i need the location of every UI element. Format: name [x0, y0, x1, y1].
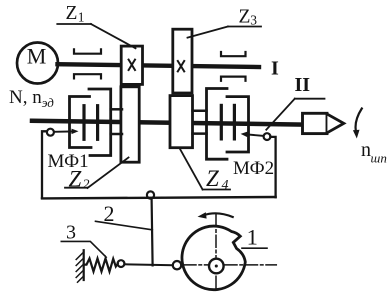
svg-text:Z: Z [206, 166, 219, 191]
svg-text:1: 1 [78, 10, 85, 25]
svg-text:1: 1 [247, 224, 258, 249]
bearing on shaft I (left) [74, 49, 101, 78]
cam pivot [209, 259, 224, 274]
spindle rect [303, 113, 328, 133]
spring eye [118, 260, 125, 267]
svg-text:Z: Z [66, 3, 78, 24]
cam rotation arrow [203, 213, 233, 217]
fork pivot left [42, 131, 47, 198]
fork pivot right [264, 133, 271, 140]
joint circle on frame [147, 191, 154, 198]
gear Z2 [121, 87, 139, 162]
svg-text:3: 3 [66, 222, 76, 244]
shaft I [58, 64, 260, 67]
gear Z1 [121, 46, 142, 84]
clutch МФ2 right half [227, 97, 249, 152]
clutch МФ2 left half [193, 89, 228, 160]
svg-text:n: n [361, 139, 371, 161]
cam profile [182, 226, 245, 290]
svg-text:МФ2: МФ2 [233, 158, 274, 179]
gear Z4 [170, 96, 193, 148]
svg-text:II: II [295, 74, 311, 96]
wall line [83, 250, 85, 280]
bearing on shaft I (right) [221, 52, 246, 81]
spindle cone [327, 114, 343, 132]
motor M [17, 43, 58, 84]
fork arrow right [246, 134, 264, 136]
fixed mark x on Z1 [129, 60, 135, 70]
shaft II [32, 121, 303, 125]
fork arrow left [54, 130, 74, 132]
wall hatching [76, 252, 84, 282]
svg-text:Z: Z [239, 6, 251, 27]
gear Z3 [173, 29, 192, 93]
svg-text:I: I [271, 58, 279, 80]
svg-text:4: 4 [222, 178, 229, 193]
cam centerlines [215, 215, 217, 289]
clutch МФ1 left half [70, 97, 92, 148]
svg-text:3: 3 [250, 13, 257, 28]
cam follower roller [173, 261, 181, 269]
clutch МФ1 right half [89, 89, 122, 156]
svg-text:шп: шп [371, 151, 387, 166]
rotation arrow at spindle [356, 109, 362, 133]
linkage frame bottom [42, 197, 276, 198]
spring [84, 259, 118, 272]
fixed mark x on Z3 [178, 61, 184, 71]
svg-text:2: 2 [83, 177, 90, 192]
lever line [124, 263, 172, 266]
svg-text:M: M [27, 44, 47, 69]
control rod [152, 199, 153, 266]
